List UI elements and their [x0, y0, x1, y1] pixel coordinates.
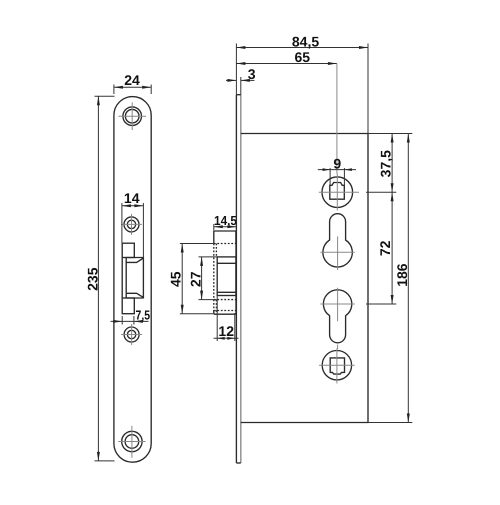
svg-text:45: 45 [167, 271, 183, 287]
cylinder 1 crosshair [320, 236, 354, 270]
dim 12 extension lines [216, 296, 218, 342]
svg-text:14: 14 [124, 190, 140, 206]
part right edge against faceplate [235, 231, 237, 314]
lock case body rectangle [241, 134, 368, 423]
dim 3 line left segment [226, 79, 236, 81]
hole centerline extension (65 dim) [336, 64, 338, 174]
follower square hole 2 circle [322, 351, 351, 380]
RIGHT VIEW DIMENSIONS [226, 33, 412, 422]
hole1 center extension to right [366, 191, 396, 193]
dim 45 arrows [181, 244, 184, 253]
latch slot left strip [121, 258, 123, 299]
latch cutout lower window [122, 298, 134, 314]
LEFT VIEW DIMENSIONS [85, 72, 152, 461]
dim 24 line [114, 86, 151, 88]
dim 186 arrows [407, 134, 410, 143]
small hole inner circle [127, 220, 135, 228]
dim 84,5 extension line right [367, 44, 369, 134]
dim 12 arrows [217, 337, 225, 340]
middle screw hole inner circle [127, 330, 135, 338]
dim 84,5 arrows [236, 46, 245, 49]
svg-text:7,5: 7,5 [136, 308, 151, 323]
small hole crosshair [121, 214, 142, 235]
dim 14 arrows [122, 204, 131, 207]
follower hole 2 crosshair [319, 348, 355, 383]
svg-text:72: 72 [377, 240, 393, 256]
svg-text:235: 235 [85, 267, 101, 291]
latch bolt front face [126, 258, 143, 297]
deadbolt box inner line bottom [217, 291, 236, 293]
dim 9 extension lines [329, 168, 331, 185]
dim 27 arrows [200, 257, 203, 266]
latch nose block (side view): top and sides solid [214, 231, 236, 244]
hidden edge dashed bottom of nose block [214, 243, 236, 245]
dim 27 line [201, 257, 203, 300]
latch bolt outer edges [126, 257, 143, 259]
hidden edge dashed vertical left inner upper [215, 244, 217, 257]
hidden edge dashed vertical left outer [213, 244, 215, 314]
dim 27 extension lines [199, 256, 217, 258]
dim 45 line [181, 244, 183, 314]
body bottom edge extension to right [368, 422, 412, 424]
bottom block left edge [213, 311, 215, 315]
follower square hole 1 circle [322, 177, 353, 208]
dim 9 arrows (outside) [323, 168, 331, 171]
faceplate side bar front edge [235, 95, 237, 463]
middle screw hole crosshair [121, 324, 142, 345]
dim 65 arrows [236, 62, 245, 65]
svg-text:12: 12 [218, 323, 234, 339]
small hole (14mm zone) outer circle [124, 217, 139, 232]
dim 14 line [122, 205, 143, 207]
dim 45 extension lines [180, 243, 213, 245]
dim 12 line [214, 337, 239, 339]
dim 7,5 extension lines [121, 316, 123, 325]
follower square hole 1 square with top bump [330, 183, 345, 200]
faceplate side bar top cap [236, 94, 240, 96]
top screw hole crosshair [118, 102, 146, 130]
dim 24 extension lines [113, 85, 115, 95]
cylinder2 center extension to right [366, 303, 396, 305]
dim 14,5 extension line left [213, 224, 215, 230]
faceplate side bar back edge [240, 95, 242, 463]
MIDDLE VIEW GROUP [214, 231, 236, 314]
dim 235 extension lines [95, 95, 115, 97]
hidden edge dashed horizontal lower [214, 310, 236, 312]
dim 235 arrows [97, 96, 100, 105]
faceplate outline (front view, rounded ends) [114, 97, 151, 463]
bottom block bottom edge [214, 313, 236, 315]
follower hole 1 crosshair [319, 174, 359, 211]
hidden edge dashed vertical left inner lower [215, 300, 217, 314]
dim 14 extension lines [121, 203, 123, 243]
body top edge extension to right [368, 133, 412, 135]
svg-text:186: 186 [394, 263, 410, 287]
svg-text:9: 9 [333, 155, 341, 171]
svg-text:84,5: 84,5 [292, 33, 319, 49]
dim 14,5 line [214, 226, 237, 228]
RIGHT VIEW GROUP [236, 95, 368, 463]
dim 65 line [236, 63, 337, 65]
dim 3 arrows (outside) [227, 79, 236, 82]
svg-text:37,5: 37,5 [378, 150, 394, 177]
dim 37,5 and 72 line [391, 134, 393, 305]
euro cylinder hole 2 (stem down) [323, 290, 351, 343]
dim 84,5 line [236, 47, 368, 49]
svg-text:65: 65 [295, 49, 311, 65]
svg-text:27: 27 [187, 271, 203, 287]
hidden edge dashed horizontal mid-lower [214, 299, 236, 301]
MIDDLE VIEW DIMENSIONS [167, 213, 238, 341]
dim 3 extension line right [240, 77, 242, 95]
top screw hole inner circle [125, 109, 139, 123]
faceplate side bar bottom cap [236, 462, 240, 464]
bottom screw hole inner circle [125, 435, 139, 449]
dim 37,5 arrows [391, 134, 394, 143]
cylinder 2 crosshair [320, 288, 354, 349]
dim 3 line right segment [241, 79, 255, 81]
follower square hole 2 square with bottom bump [330, 358, 344, 374]
deadbolt box outline [217, 257, 236, 296]
dim 24 arrows [114, 86, 123, 89]
euro cylinder hole 1 (stem up) [323, 214, 352, 267]
svg-text:24: 24 [124, 72, 140, 88]
LEFT VIEW GROUP [114, 97, 151, 463]
dim 9 line [318, 169, 356, 171]
svg-text:3: 3 [248, 66, 256, 82]
dim 7,5 arrows (outside) [113, 320, 122, 323]
dim 14,5 arrows [214, 225, 223, 228]
dim 84,5 extension line left (shared with 65 and 3) [235, 44, 237, 95]
latch cutout upper window [122, 243, 134, 257]
svg-text:14,5: 14,5 [214, 213, 237, 228]
dim 235 line [97, 96, 99, 461]
dim 186 line [407, 134, 409, 423]
bottom screw hole outer circle [122, 431, 142, 451]
dim 7,5 line [111, 320, 149, 322]
bottom screw hole crosshair [118, 426, 145, 458]
dim 72 arrows [391, 192, 394, 201]
deadbolt box inner line top [217, 262, 236, 264]
top screw hole outer circle [123, 107, 142, 126]
middle screw hole outer circle [124, 327, 139, 342]
